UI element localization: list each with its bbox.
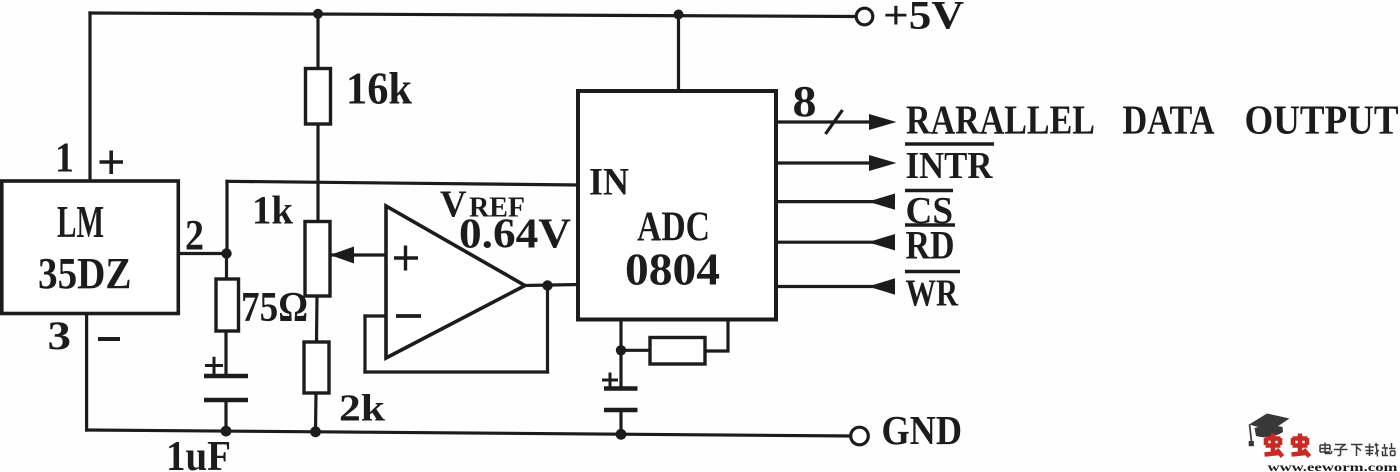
capacitor C2 polarity plus: [602, 373, 618, 388]
logo graduation cap: [1249, 414, 1290, 431]
IC U2 ADC0804 box: [578, 91, 776, 320]
wire to ADC IN: [227, 181, 578, 185]
svg-text:LM: LM: [57, 196, 104, 247]
pin1 plus symbol: [100, 151, 124, 175]
op-amp minus input symbol: [396, 314, 421, 318]
svg-text:75Ω: 75Ω: [241, 285, 308, 331]
svg-text:IN: IN: [589, 160, 629, 203]
terminal +5V: [856, 8, 873, 25]
wire op-amp output to ADC: [525, 285, 578, 286]
wire feedback left: [363, 316, 366, 372]
arrowhead data output: [869, 114, 897, 130]
op-amp plus input symbol: [394, 246, 418, 271]
wire feedback right: [546, 286, 549, 373]
potentiometer RP 1k body: [305, 222, 330, 297]
svg-text:GND: GND: [882, 407, 963, 453]
svg-text:35DZ: 35DZ: [38, 249, 132, 298]
logo chinese text zi: [1334, 445, 1348, 456]
junction 16k / top rail: [313, 9, 323, 19]
svg-text:RARALLEL: RARALLEL: [906, 97, 1095, 143]
resistor R4 (ADC bottom) body: [650, 338, 705, 365]
svg-text:RD: RD: [906, 223, 955, 268]
arrowhead INTR: [869, 155, 897, 171]
IC U1 LM35DZ box: [2, 181, 179, 314]
capacitor C1 1uF plates: [204, 376, 248, 400]
wire to resistor R4: [621, 349, 650, 352]
resistor R3 2k body: [304, 342, 329, 393]
wire 2k to rail: [314, 393, 318, 432]
resistor R2 75ohm body: [216, 279, 239, 331]
arrowhead RD: [868, 234, 895, 250]
wire ADC pin WR: [776, 285, 893, 288]
wire ADC pin RD: [776, 241, 893, 244]
pin3 minus symbol: [98, 337, 120, 341]
svg-text:8: 8: [793, 77, 817, 126]
wire LM pin 2 stub: [180, 252, 227, 255]
bus slash on data output: [826, 110, 843, 134]
svg-text:DATA: DATA: [1123, 97, 1215, 143]
wire ADC top to rail: [677, 15, 680, 92]
wire cap C2 to rail: [619, 410, 622, 434]
logo chinese text dian: [1320, 443, 1332, 454]
overline INTR: [905, 142, 994, 145]
overline CS: [905, 189, 953, 192]
wire left drop to LM pin 1: [88, 13, 91, 181]
svg-text:www.eeworm.com: www.eeworm.com: [1268, 462, 1399, 472]
svg-text:2: 2: [185, 213, 204, 260]
logo chong2 (red bug char): [1292, 434, 1310, 457]
wire feedback bottom: [365, 370, 548, 373]
svg-text:1: 1: [55, 136, 74, 182]
wire ADC pin INTR: [776, 161, 870, 164]
svg-text:3: 3: [48, 313, 72, 358]
wire ADC pin CS: [776, 200, 893, 203]
svg-text:INTR: INTR: [906, 145, 993, 187]
wire node2 up: [225, 181, 228, 253]
svg-text:WR: WR: [906, 273, 959, 315]
wire op-amp minus stub: [365, 314, 386, 317]
wire pot to 2k: [315, 296, 319, 342]
junction C2 / rail: [616, 429, 627, 440]
wire bottom rail GND: [87, 430, 851, 436]
wire node2 down to 75ohm: [225, 254, 228, 280]
wire ADC pin data: [776, 120, 870, 123]
wire top rail +5V: [90, 13, 856, 17]
op-amp U3 triangle: [386, 206, 525, 358]
junction node 2: [221, 248, 231, 258]
wire cap C1 to rail: [224, 400, 227, 431]
svg-text:OUTPUT: OUTPUT: [1245, 97, 1399, 143]
arrowhead WR: [868, 278, 895, 294]
svg-text:1uF: 1uF: [166, 434, 231, 472]
wire 16k to pot: [316, 124, 319, 222]
junction op-amp output: [542, 280, 552, 290]
terminal GND: [851, 427, 869, 445]
wire 16k top: [316, 14, 319, 69]
wire LM pin 3 drop: [85, 314, 88, 431]
logo chong1 (red bug char): [1265, 434, 1283, 457]
wire pot wiper to op-amp: [330, 253, 386, 256]
junction ADC bottom node: [616, 345, 626, 355]
logo chinese text xia: [1351, 445, 1363, 457]
logo chinese text zhan: [1382, 443, 1396, 456]
wire 75ohm to cap C1: [224, 331, 227, 376]
capacitor C2 plates: [604, 389, 638, 411]
logo chinese text zai: [1365, 443, 1379, 457]
wire resistor R4 right: [705, 320, 728, 352]
junction C1 / rail: [221, 426, 232, 437]
arrowhead pot wiper: [330, 247, 354, 264]
resistor R1 16k body: [306, 69, 331, 125]
arrowhead CS: [868, 194, 895, 210]
svg-text:2k: 2k: [339, 388, 386, 430]
overline RD: [905, 223, 955, 226]
junction ADC top / rail: [674, 10, 684, 20]
wire ADC bottom left: [619, 320, 622, 351]
svg-text:0804: 0804: [625, 244, 720, 295]
overline WR: [905, 270, 960, 273]
svg-text:16k: 16k: [346, 64, 412, 114]
capacitor C1 polarity plus: [205, 357, 223, 375]
wire node to cap C2: [619, 350, 622, 388]
svg-text:+5V: +5V: [883, 0, 964, 38]
svg-text:1k: 1k: [252, 188, 294, 233]
svg-text:0.64V: 0.64V: [459, 212, 571, 258]
junction 2k / rail: [310, 426, 321, 437]
